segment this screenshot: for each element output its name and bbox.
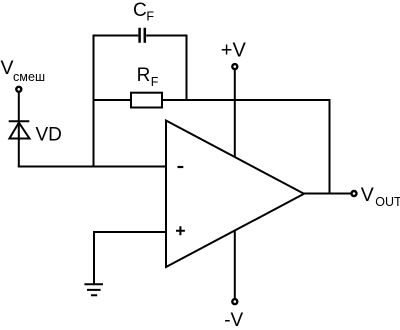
svg-text:-V: -V (224, 310, 243, 330)
svg-text:C: C (133, 0, 147, 21)
svg-text:OUT: OUT (375, 195, 400, 209)
svg-text:F: F (151, 75, 159, 89)
svg-text:V: V (1, 57, 14, 79)
svg-text:V: V (361, 184, 374, 206)
svg-text:R: R (137, 65, 151, 86)
svg-text:F: F (146, 10, 154, 24)
svg-text:смеш: смеш (13, 70, 45, 84)
svg-text:VD: VD (36, 124, 62, 145)
svg-text:+V: +V (221, 39, 247, 61)
